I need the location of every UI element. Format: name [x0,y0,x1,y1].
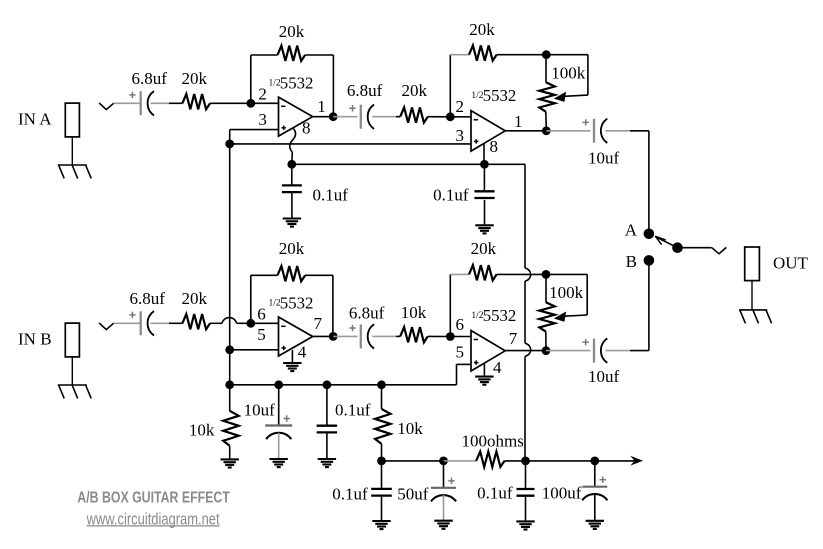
svg-text:6.8uf: 6.8uf [349,304,385,323]
svg-text:5532: 5532 [280,74,314,93]
svg-text:0.1uf: 0.1uf [332,485,368,504]
svg-text:20k: 20k [182,69,208,88]
svg-text:A/B BOX GUITAR EFFECT: A/B BOX GUITAR EFFECT [77,490,230,507]
svg-text:0.1uf: 0.1uf [433,186,469,205]
svg-text:6.8uf: 6.8uf [132,69,168,88]
svg-text:100uf: 100uf [542,484,582,503]
svg-text:10k: 10k [189,421,215,440]
svg-text:100ohms: 100ohms [462,431,524,450]
svg-text:0.1uf: 0.1uf [335,401,371,420]
svg-text:50uf: 50uf [397,485,429,504]
svg-text:10uf: 10uf [588,367,620,386]
svg-text:20k: 20k [279,239,305,258]
svg-text:10k: 10k [401,303,427,322]
svg-text:2: 2 [258,84,267,103]
svg-text:20k: 20k [182,289,208,308]
svg-text:1: 1 [514,112,523,131]
svg-text:10uf: 10uf [588,149,620,168]
svg-text:IN A: IN A [18,110,52,129]
svg-text:20k: 20k [469,20,495,39]
svg-text:0.1uf: 0.1uf [313,186,349,205]
svg-text:5532: 5532 [483,306,517,325]
svg-text:6: 6 [456,315,465,334]
svg-text:20k: 20k [402,81,428,100]
svg-text:IN B: IN B [18,330,52,349]
svg-text:OUT: OUT [773,254,809,273]
svg-text:1: 1 [317,97,326,116]
svg-text:4: 4 [298,343,307,362]
svg-text:20k: 20k [471,239,497,258]
svg-text:8: 8 [490,137,499,156]
svg-text:5532: 5532 [483,86,517,105]
svg-text:8: 8 [302,118,311,137]
svg-text:10k: 10k [397,419,423,438]
svg-text:5: 5 [257,325,266,344]
svg-text:100k: 100k [551,64,586,83]
svg-text:7: 7 [314,314,323,333]
svg-text:3: 3 [258,110,267,129]
svg-text:A: A [625,220,638,239]
svg-text:B: B [626,252,637,271]
svg-text:20k: 20k [279,22,305,41]
svg-text:6.8uf: 6.8uf [130,289,166,308]
svg-text:7: 7 [509,329,518,348]
svg-text:5532: 5532 [280,294,314,313]
svg-text:100k: 100k [549,283,584,302]
svg-text:2: 2 [456,97,465,116]
svg-text:5: 5 [456,343,465,362]
svg-text:3: 3 [456,126,465,145]
svg-text:10uf: 10uf [244,401,276,420]
svg-text:6: 6 [257,305,266,324]
svg-text:6.8uf: 6.8uf [347,81,383,100]
svg-text:0.1uf: 0.1uf [477,484,513,503]
svg-text:4: 4 [493,358,502,377]
